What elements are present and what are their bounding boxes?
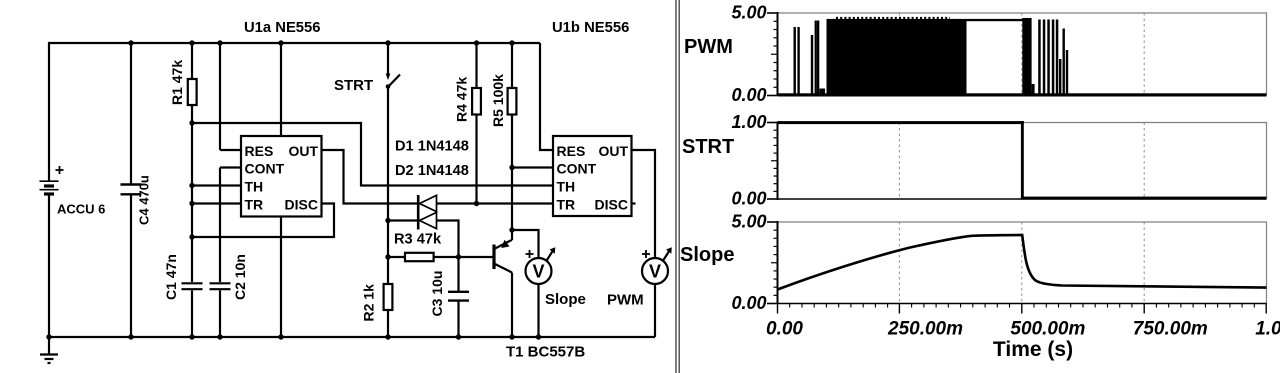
svg-text:1.0: 1.0 xyxy=(1255,319,1280,340)
svg-text:C2 10n: C2 10n xyxy=(232,254,248,300)
svg-text:DISC: DISC xyxy=(595,196,628,212)
svg-text:ACCU 6: ACCU 6 xyxy=(57,202,105,217)
svg-text:RES: RES xyxy=(557,143,586,159)
svg-text:0.00: 0.00 xyxy=(731,85,766,105)
svg-text:0.00: 0.00 xyxy=(731,189,766,209)
svg-text:TH: TH xyxy=(557,178,576,194)
svg-text:STRT: STRT xyxy=(682,136,734,158)
svg-text:5.00: 5.00 xyxy=(731,3,766,23)
svg-text:Slope: Slope xyxy=(545,291,586,308)
svg-text:U1a NE556: U1a NE556 xyxy=(244,20,321,36)
svg-text:Slope: Slope xyxy=(680,244,734,266)
svg-text:R2 1k: R2 1k xyxy=(361,284,377,322)
svg-text:TH: TH xyxy=(245,178,264,194)
svg-text:V: V xyxy=(532,262,544,282)
svg-text:5.00: 5.00 xyxy=(731,212,766,232)
svg-text:R4 47k: R4 47k xyxy=(454,77,470,122)
svg-text:0.00: 0.00 xyxy=(766,319,803,340)
svg-text:STRT: STRT xyxy=(334,77,373,94)
svg-text:OUT: OUT xyxy=(288,143,318,159)
svg-text:R1 47k: R1 47k xyxy=(169,60,185,105)
svg-text:R3 47k: R3 47k xyxy=(394,232,442,248)
svg-text:C3 10u: C3 10u xyxy=(429,271,445,317)
svg-text:Time (s): Time (s) xyxy=(993,338,1073,361)
svg-text:1.00: 1.00 xyxy=(731,112,766,132)
svg-text:TR: TR xyxy=(245,196,264,212)
svg-text:T1 BC557B: T1 BC557B xyxy=(506,344,585,361)
svg-text:OUT: OUT xyxy=(598,143,628,159)
svg-text:750.00m: 750.00m xyxy=(1133,319,1208,340)
svg-text:U1b NE556: U1b NE556 xyxy=(552,20,629,36)
svg-text:V: V xyxy=(649,262,661,282)
svg-text:C4 470u: C4 470u xyxy=(137,175,152,225)
svg-text:PWM: PWM xyxy=(607,292,644,309)
svg-text:PWM: PWM xyxy=(684,36,733,58)
svg-text:RES: RES xyxy=(245,143,274,159)
svg-text:250.00m: 250.00m xyxy=(887,319,963,340)
svg-text:C1 47n: C1 47n xyxy=(163,254,179,300)
svg-text:0.00: 0.00 xyxy=(731,293,766,313)
svg-text:500.00m: 500.00m xyxy=(1010,319,1085,340)
svg-text:TR: TR xyxy=(557,196,576,212)
svg-text:CONT: CONT xyxy=(245,160,285,176)
svg-text:DISC: DISC xyxy=(285,196,318,212)
svg-text:D2 1N4148: D2 1N4148 xyxy=(395,163,469,179)
svg-text:R5 100k: R5 100k xyxy=(490,74,506,127)
svg-text:CONT: CONT xyxy=(557,160,597,176)
svg-text:D1 1N4148: D1 1N4148 xyxy=(395,139,469,155)
